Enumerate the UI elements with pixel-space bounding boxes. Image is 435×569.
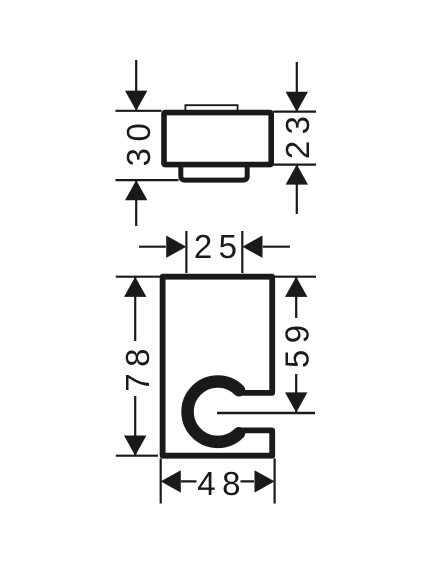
svg-text:23: 23 (279, 109, 316, 159)
svg-text:59: 59 (278, 318, 315, 368)
svg-text:25: 25 (194, 228, 244, 265)
svg-text:48: 48 (197, 465, 247, 502)
svg-text:30: 30 (120, 117, 157, 167)
svg-text:78: 78 (119, 342, 156, 392)
